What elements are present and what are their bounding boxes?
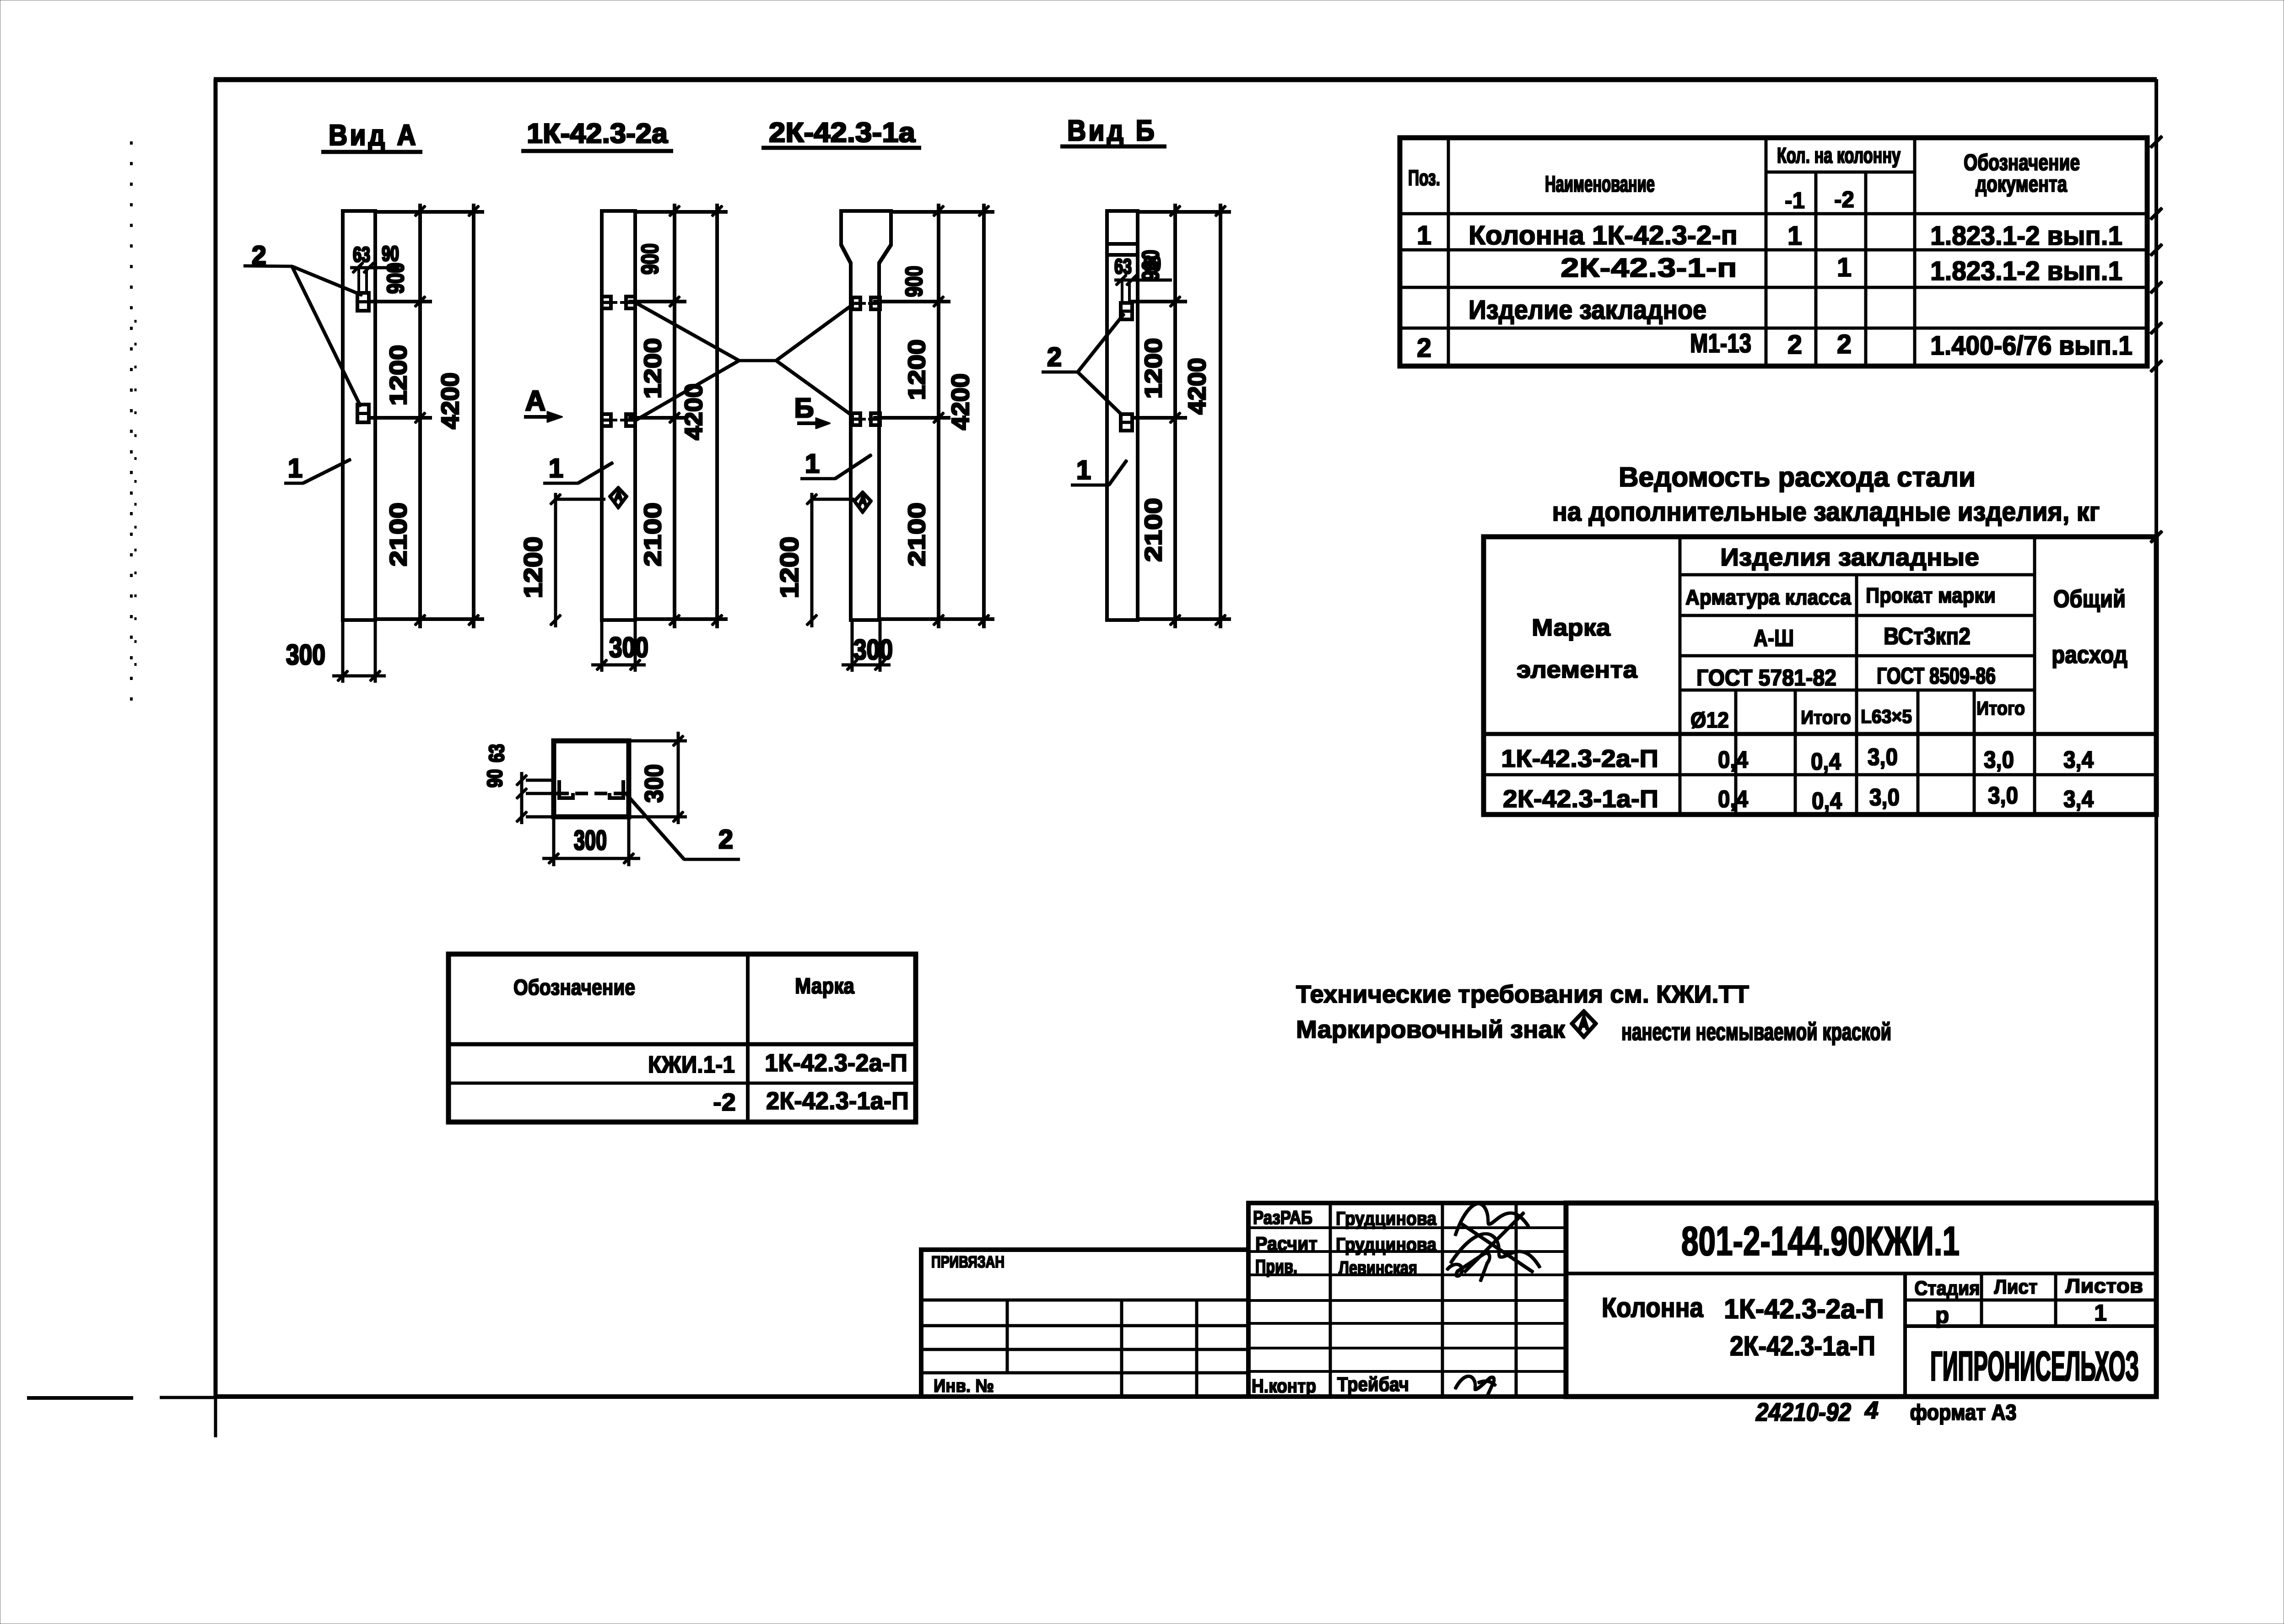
svg-text:3,0: 3,0 — [1988, 782, 2018, 809]
svg-text:-1: -1 — [1785, 188, 1805, 213]
svg-text:3,0: 3,0 — [1868, 744, 1898, 771]
svg-text:Трейбач: Трейбач — [1337, 1373, 1409, 1396]
svg-text:Наименование: Наименование — [1545, 171, 1655, 197]
svg-text:2: 2 — [1837, 329, 1852, 359]
svg-text:Стадия: Стадия — [1915, 1277, 1980, 1300]
svg-text:3,0: 3,0 — [1984, 747, 2014, 773]
svg-text:1: 1 — [1076, 455, 1091, 485]
svg-text:А-Ш: А-Ш — [1754, 625, 1794, 652]
svg-text:Расчит: Расчит — [1255, 1233, 1317, 1254]
svg-text:2100: 2100 — [385, 502, 412, 567]
svg-text:формат А3: формат А3 — [1910, 1401, 2017, 1425]
svg-text:1.823.1-2 вып.1: 1.823.1-2 вып.1 — [1930, 221, 2122, 251]
svg-text:2К-42.3-1а: 2К-42.3-1а — [769, 117, 916, 148]
svg-text:1.823.1-2 вып.1: 1.823.1-2 вып.1 — [1930, 256, 2122, 286]
svg-text:0,4: 0,4 — [1812, 788, 1842, 815]
svg-text:Поз.: Поз. — [1408, 166, 1440, 190]
svg-text:1200: 1200 — [775, 537, 804, 599]
svg-text:4200: 4200 — [437, 372, 464, 429]
svg-text:Колонна: Колонна — [1602, 1292, 1704, 1323]
svg-text:р: р — [1935, 1302, 1949, 1328]
svg-text:1К-42.3-2а: 1К-42.3-2а — [527, 118, 668, 149]
svg-text:90: 90 — [382, 242, 399, 265]
svg-text:90: 90 — [1144, 252, 1161, 275]
svg-text:Грудцинова: Грудцинова — [1336, 1208, 1437, 1229]
svg-text:Прив.: Прив. — [1255, 1256, 1297, 1277]
svg-text:2: 2 — [718, 825, 733, 854]
svg-text:1.400-6/76 вып.1: 1.400-6/76 вып.1 — [1930, 331, 2133, 361]
svg-text:1: 1 — [549, 453, 563, 483]
svg-text:300: 300 — [286, 639, 325, 671]
svg-text:Грудцинова: Грудцинова — [1336, 1234, 1437, 1255]
svg-text:Итого: Итого — [1976, 697, 2025, 719]
svg-text:1К-42.3-2а-П: 1К-42.3-2а-П — [1501, 745, 1658, 772]
svg-text:300: 300 — [639, 764, 668, 803]
svg-text:Итого: Итого — [1801, 707, 1851, 728]
svg-text:Листов: Листов — [2065, 1275, 2143, 1297]
svg-text:4200: 4200 — [1183, 358, 1211, 415]
svg-text:2100: 2100 — [640, 502, 666, 567]
svg-text:2: 2 — [1417, 333, 1431, 363]
svg-text:0,4: 0,4 — [1718, 747, 1748, 773]
svg-text:3,0: 3,0 — [1869, 784, 1900, 811]
svg-text:2К-42.3-1а-П: 2К-42.3-1а-П — [766, 1087, 909, 1115]
svg-text:РазРАБ: РазРАБ — [1253, 1207, 1312, 1228]
svg-text:Вид Б: Вид Б — [1067, 114, 1157, 147]
svg-text:Левинская: Левинская — [1339, 1257, 1417, 1279]
svg-text:900: 900 — [901, 266, 928, 297]
svg-text:0,4: 0,4 — [1811, 749, 1841, 775]
svg-text:1: 1 — [1837, 253, 1852, 282]
svg-text:2К-42.3-1-п: 2К-42.3-1-п — [1560, 253, 1737, 283]
svg-text:Прокат марки: Прокат марки — [1866, 583, 1996, 607]
svg-text:63: 63 — [485, 744, 508, 762]
svg-text:Марка: Марка — [1532, 615, 1611, 641]
svg-text:900: 900 — [637, 243, 664, 275]
svg-text:на дополнительные закладные: на дополнительные закладные изделия, кг — [1552, 497, 2100, 527]
svg-text:300: 300 — [609, 632, 648, 664]
svg-text:1: 1 — [1787, 221, 1802, 251]
svg-text:4200: 4200 — [947, 373, 974, 430]
svg-text:Общий: Общий — [2053, 585, 2126, 613]
svg-text:Ведомость расхода стали: Ведомость расхода стали — [1619, 462, 1976, 492]
svg-text:90: 90 — [483, 769, 507, 788]
svg-text:КЖИ.1-1: КЖИ.1-1 — [648, 1052, 735, 1078]
svg-text:1: 1 — [805, 449, 820, 479]
svg-text:0,4: 0,4 — [1718, 786, 1748, 813]
svg-text:1200: 1200 — [904, 340, 930, 400]
svg-text:ВСт3кп2: ВСт3кп2 — [1884, 623, 1971, 650]
svg-text:нанести несмываемой краской: нанести несмываемой краской — [1621, 1018, 1891, 1046]
svg-text:Изделия закладные: Изделия закладные — [1720, 544, 1979, 571]
svg-text:-2: -2 — [713, 1089, 736, 1116]
svg-text:1: 1 — [288, 453, 302, 483]
svg-text:4: 4 — [1864, 1397, 1879, 1424]
svg-text:расход: расход — [2052, 641, 2127, 669]
svg-text:Н.контр: Н.контр — [1252, 1375, 1316, 1397]
svg-text:Б: Б — [794, 393, 814, 423]
svg-text:300: 300 — [853, 634, 893, 666]
svg-text:2: 2 — [1047, 342, 1062, 372]
svg-text:элемента: элемента — [1517, 657, 1638, 683]
svg-text:1200: 1200 — [1140, 338, 1167, 399]
svg-text:Вид А: Вид А — [329, 119, 418, 151]
svg-text:24210-92: 24210-92 — [1755, 1397, 1851, 1426]
svg-text:Лист: Лист — [1994, 1276, 2038, 1298]
svg-text:Изделие закладное: Изделие закладное — [1469, 295, 1706, 325]
svg-text:Ø12: Ø12 — [1690, 708, 1729, 733]
svg-text:1К-42.3-2а-П: 1К-42.3-2а-П — [765, 1049, 907, 1077]
svg-text:3,4: 3,4 — [2063, 747, 2094, 773]
svg-text:ПРИВЯЗАН: ПРИВЯЗАН — [931, 1252, 1004, 1271]
svg-text:ГИПРОНИСЕЛЬХОЗ: ГИПРОНИСЕЛЬХОЗ — [1930, 1343, 2139, 1390]
svg-text:Кол. на колонну: Кол. на колонну — [1777, 144, 1901, 168]
svg-text:ГОСТ 5781-82: ГОСТ 5781-82 — [1696, 665, 1836, 691]
svg-text:-2: -2 — [1834, 187, 1854, 212]
svg-text:1200: 1200 — [385, 345, 412, 406]
svg-text:2100: 2100 — [904, 502, 930, 567]
svg-text:Маркировочный знак: Маркировочный знак — [1296, 1016, 1566, 1043]
svg-text:1К-42.3-2а-П: 1К-42.3-2а-П — [1724, 1294, 1884, 1324]
svg-text:Технические требования см.: Технические требования см. КЖИ.ТТ — [1296, 981, 1749, 1008]
svg-text:2К-42.3-1а-П: 2К-42.3-1а-П — [1503, 785, 1658, 813]
svg-text:Инв. №: Инв. № — [934, 1376, 994, 1396]
svg-text:Колонна 1К-42.3-2-п: Колонна 1К-42.3-2-п — [1469, 221, 1738, 250]
svg-text:ГОСТ 8509-86: ГОСТ 8509-86 — [1877, 663, 1996, 689]
svg-text:Арматура класса: Арматура класса — [1685, 585, 1851, 609]
svg-text:801-2-144.90КЖИ.1: 801-2-144.90КЖИ.1 — [1681, 1219, 1960, 1264]
svg-text:L63×5: L63×5 — [1861, 706, 1912, 727]
svg-text:1200: 1200 — [518, 537, 547, 599]
svg-text:63: 63 — [1114, 254, 1132, 278]
svg-text:1: 1 — [2094, 1300, 2107, 1326]
svg-text:300: 300 — [574, 825, 607, 856]
svg-text:1: 1 — [1417, 221, 1431, 250]
svg-text:А: А — [525, 385, 546, 417]
svg-text:М1-13: М1-13 — [1690, 329, 1751, 358]
svg-text:2100: 2100 — [1140, 498, 1167, 562]
svg-text:Марка: Марка — [795, 974, 854, 998]
svg-text:Обозначение: Обозначение — [513, 976, 635, 1000]
svg-text:2К-42.3-1а-П: 2К-42.3-1а-П — [1730, 1331, 1875, 1361]
svg-text:3,4: 3,4 — [2063, 786, 2094, 813]
svg-text:документа: документа — [1976, 171, 2068, 197]
svg-text:1200: 1200 — [640, 338, 666, 399]
svg-text:2: 2 — [1787, 330, 1802, 360]
